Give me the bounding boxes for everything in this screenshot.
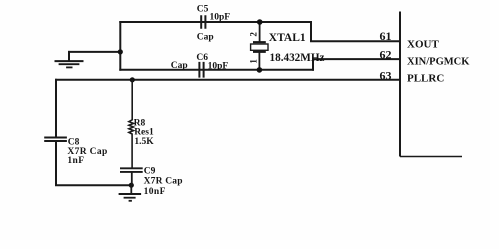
svg-text:62: 62 [380, 48, 392, 62]
svg-text:1: 1 [248, 59, 258, 64]
wire C6 net horizontal [120, 69, 313, 71]
svg-text:XOUT: XOUT [407, 38, 439, 50]
svg-text:10pF: 10pF [208, 61, 229, 71]
wire top net step down to pin 61 [311, 22, 400, 41]
svg-text:Cap: Cap [171, 61, 188, 71]
svg-text:1.5K: 1.5K [134, 137, 154, 147]
wire C8 bottom to bottom rail [56, 141, 131, 185]
svg-text:2: 2 [249, 32, 259, 37]
wire PLLRC net to pin 63 [56, 79, 400, 81]
IC left edge [399, 12, 401, 157]
capacitor C9 [120, 166, 183, 197]
svg-text:10nF: 10nF [144, 187, 166, 197]
wire left branch down to C8 [55, 80, 57, 138]
svg-text:X7R Cap: X7R Cap [144, 176, 183, 186]
node top junction [257, 19, 263, 25]
svg-text:63: 63 [380, 68, 392, 82]
svg-text:C9: C9 [144, 166, 156, 176]
ground [119, 185, 142, 201]
svg-text:C6: C6 [196, 53, 208, 63]
svg-text:61: 61 [380, 29, 392, 43]
svg-text:10pF: 10pF [210, 13, 231, 23]
svg-text:PLLRC: PLLRC [407, 73, 444, 85]
wire left rail vertical [119, 22, 121, 70]
node R8 top junction [130, 77, 135, 82]
node bottom rail junction [129, 183, 134, 188]
capacitor C5 [197, 5, 230, 43]
node left rail junction [118, 49, 123, 54]
svg-text:1nF: 1nF [67, 156, 84, 166]
wire C6 net step up to pin 62 [313, 59, 400, 70]
svg-text:C5: C5 [197, 5, 209, 15]
wire ground to left rail [69, 51, 120, 53]
resistor R8 [129, 80, 154, 169]
capacitor C6 [171, 53, 229, 78]
svg-text:Cap: Cap [197, 33, 214, 43]
crystal XTAL1 [248, 22, 324, 70]
wire top net horizontal [120, 21, 311, 23]
ground [56, 52, 83, 68]
capacitor C8 [44, 137, 107, 166]
svg-text:18.432MHz: 18.432MHz [270, 52, 325, 64]
svg-text:XIN/PGMCK: XIN/PGMCK [407, 57, 470, 68]
svg-text:XTAL1: XTAL1 [269, 32, 306, 44]
IC bottom edge [400, 156, 462, 158]
node bottom crystal junction [257, 67, 263, 73]
